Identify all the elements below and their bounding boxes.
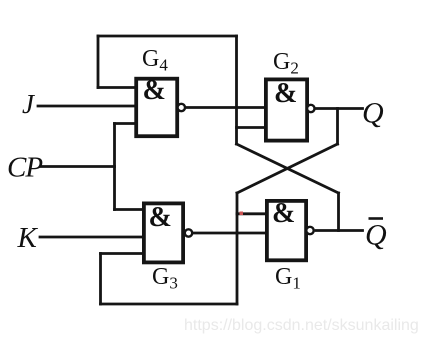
svg-text:&: & (274, 78, 297, 109)
wire G4 output to G2 upper input (185, 106, 264, 109)
NAND gate G4 box (136, 79, 177, 137)
wire Qbar output (316, 229, 363, 232)
wire Q output (316, 107, 363, 110)
wire Q drop vertical (336, 109, 339, 145)
wire Q cross diagonal (237, 144, 338, 193)
svg-text:G2: G2 (273, 49, 299, 78)
wire Qbar feedback left vertical (97, 36, 100, 88)
wire Qbar feedback into G2 lower input (237, 126, 265, 129)
wire Qbar feedback right vertical (235, 36, 238, 144)
G4 output inversion bubble (178, 104, 185, 111)
svg-text:Q: Q (362, 97, 384, 130)
svg-text:CP: CP (7, 152, 42, 184)
G1 output inversion bubble (306, 227, 313, 234)
wire Qbar feedback top horizontal (98, 35, 237, 38)
G3 output inversion bubble (185, 229, 192, 236)
wire CP vertical branch (113, 124, 116, 210)
svg-text:G4: G4 (142, 46, 168, 75)
svg-text:Q: Q (365, 219, 387, 252)
svg-text:G3: G3 (152, 264, 178, 293)
svg-text:G1: G1 (275, 264, 301, 293)
wire K input (40, 236, 142, 239)
Qbar overline (369, 217, 384, 220)
NAND gate G2 box (266, 79, 307, 140)
svg-text:&: & (143, 75, 166, 106)
svg-text:J: J (22, 89, 36, 119)
wire CP to G4 input (115, 122, 136, 125)
NAND gate G3 box (144, 203, 183, 262)
svg-text:K: K (17, 222, 39, 254)
wire Qbar rise vertical (337, 193, 340, 231)
G2 output inversion bubble (307, 105, 314, 112)
wire Q to G1 upper input (237, 212, 265, 215)
junction dot (red mark) on node Q at G1 input (240, 212, 244, 216)
wire Q lower left vertical (236, 193, 239, 304)
wire Q bottom feedback horizontal (101, 303, 238, 306)
wire G3 output to G1 lower input (192, 232, 265, 235)
wire Q feedback into G3 lower input (101, 252, 143, 255)
watermark (184, 317, 427, 335)
wire Q bottom feedback left vertical (99, 254, 102, 305)
wire CP to G3 input (115, 208, 143, 211)
wire CP input (41, 165, 115, 168)
NAND gate G1 box (267, 201, 306, 260)
svg-text:&: & (272, 198, 295, 229)
wire Qbar cross diagonal (237, 144, 339, 193)
svg-text:&: & (149, 202, 172, 233)
wire Qbar feedback into G4 top input (98, 86, 135, 89)
wire J input (38, 105, 135, 108)
